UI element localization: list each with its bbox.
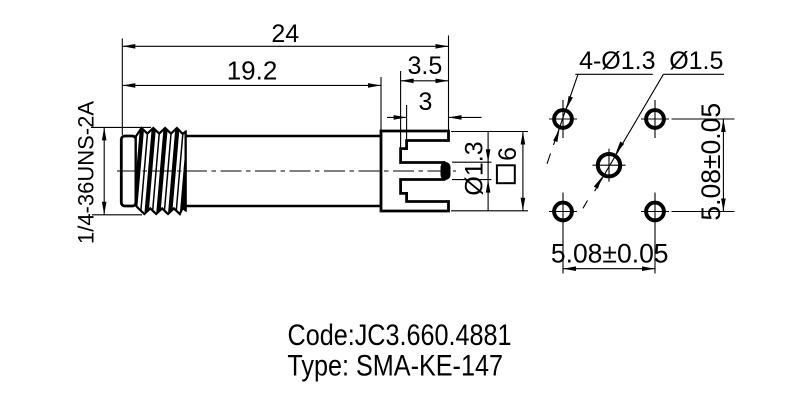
pin extension lines [452, 161, 492, 163]
mounting hole 3 [554, 203, 572, 221]
hole dim bottom line [563, 268, 655, 270]
leader 4-Ø1.3 [554, 74, 579, 145]
svg-text:3: 3 [418, 88, 432, 116]
svg-text:5.08±0.05: 5.08±0.05 [696, 103, 726, 221]
hole dim right line [722, 119, 724, 212]
label underline 1 [575, 73, 653, 75]
centerline [117, 170, 456, 172]
svg-text:19.2: 19.2 [227, 56, 278, 86]
extension line x=448.5 [448, 36, 450, 131]
hole cross top-right [641, 118, 669, 120]
center hole [598, 154, 620, 176]
hole cross bottom-left [549, 211, 577, 213]
center hole cross [593, 164, 626, 166]
svg-text:6: 6 [494, 147, 522, 161]
pin tip [441, 162, 451, 180]
svg-text:Code:JC3.660.4881: Code:JC3.660.4881 [288, 318, 512, 352]
extension line x=400.6 [400, 71, 402, 148]
pin diameter dimension line [487, 132, 489, 211]
connector end cap [121, 136, 136, 206]
thread diameter dimension line [103, 127, 105, 214]
label underline 2 [663, 73, 724, 75]
svg-text:1/4-36UNS-2A: 1/4-36UNS-2A [74, 101, 99, 244]
hole dim ext right [672, 118, 735, 120]
flange height extension lines [451, 131, 528, 133]
barrel body [186, 135, 381, 138]
dimension 6 line [522, 132, 524, 211]
svg-text:3.5: 3.5 [408, 52, 443, 80]
thread extension lines [91, 126, 151, 128]
leader Ø1.5 [595, 74, 664, 191]
svg-text:24: 24 [271, 20, 299, 48]
dimension 3 line [387, 116, 407, 118]
svg-text:Ø1.5: Ø1.5 [669, 47, 723, 75]
svg-text:5.08±0.05: 5.08±0.05 [551, 239, 669, 269]
flange with legs and center pin [381, 131, 449, 211]
svg-text:Ø1.3: Ø1.3 [461, 141, 489, 195]
extension line x=381 [380, 77, 382, 130]
extension line x=406.6 [406, 105, 408, 148]
svg-text:4-Ø1.3: 4-Ø1.3 [579, 47, 655, 75]
dimension 19.2 line [122, 84, 381, 86]
hole dim ext bottom [562, 193, 564, 274]
svg-text:Type: SMA-KE-147: Type: SMA-KE-147 [287, 349, 503, 383]
hole cross top-left [549, 118, 577, 120]
square symbol [497, 165, 515, 183]
mounting hole 2 [646, 110, 664, 128]
mounting hole 4 [646, 203, 664, 221]
dimension 3.5 line [401, 80, 449, 82]
hole cross bottom-right [641, 211, 669, 213]
mounting hole 1 [554, 110, 572, 128]
extension line x=122.3 [121, 39, 123, 136]
dimension 24 line [122, 45, 448, 47]
